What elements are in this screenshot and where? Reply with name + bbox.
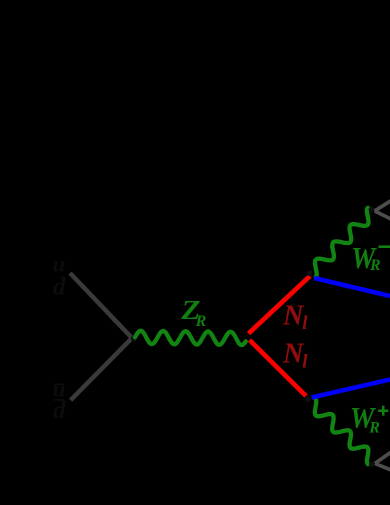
heavy neutrino N line (lower, red) [250, 340, 307, 396]
overbar of u-bar [54, 383, 64, 385]
vertex dot (lower W_R decay vertex) [369, 462, 374, 467]
svg-text:N: N [282, 300, 305, 332]
heavy neutrino N line (upper, red) [249, 276, 311, 334]
svg-text:R: R [369, 257, 381, 274]
W_R plus decay product line (upper gray) [375, 452, 390, 464]
lepton line (upper, blue) [314, 278, 390, 296]
svg-text:R: R [195, 313, 207, 330]
label W_R plus : plus superscript vertical bar [382, 406, 385, 416]
svg-text:l: l [302, 314, 308, 334]
svg-text:R: R [368, 420, 380, 437]
svg-text:d: d [53, 274, 66, 301]
W_R minus decay product line (lower gray) [375, 211, 390, 220]
vertex dot (left qq-ZR vertex) [131, 336, 137, 342]
Z_R boson wavy line [135, 331, 246, 345]
W_R minus decay product line (upper gray) [375, 200, 390, 211]
svg-text:l: l [302, 353, 308, 373]
vertex dot (lower N decay vertex) [305, 396, 311, 402]
svg-text:N: N [282, 338, 305, 370]
W_R minus boson wavy line [315, 208, 369, 277]
label W_R plus : plus superscript horizontal bar [378, 410, 388, 413]
vertex dot (upper N decay vertex) [307, 270, 313, 276]
W_R plus decay product line (lower gray) [375, 463, 390, 470]
lepton line (lower, blue) [312, 380, 390, 398]
label W_R minus : minus superscript [379, 245, 390, 248]
W_R plus boson wavy line [315, 399, 369, 465]
incoming antiquark line (lower left fermion) [71, 338, 132, 400]
vertex dot (upper W_R decay vertex) [369, 207, 374, 212]
overbar of d-bar [54, 399, 64, 401]
incoming quark line (upper left fermion) [70, 273, 132, 338]
svg-text:d: d [53, 397, 66, 424]
